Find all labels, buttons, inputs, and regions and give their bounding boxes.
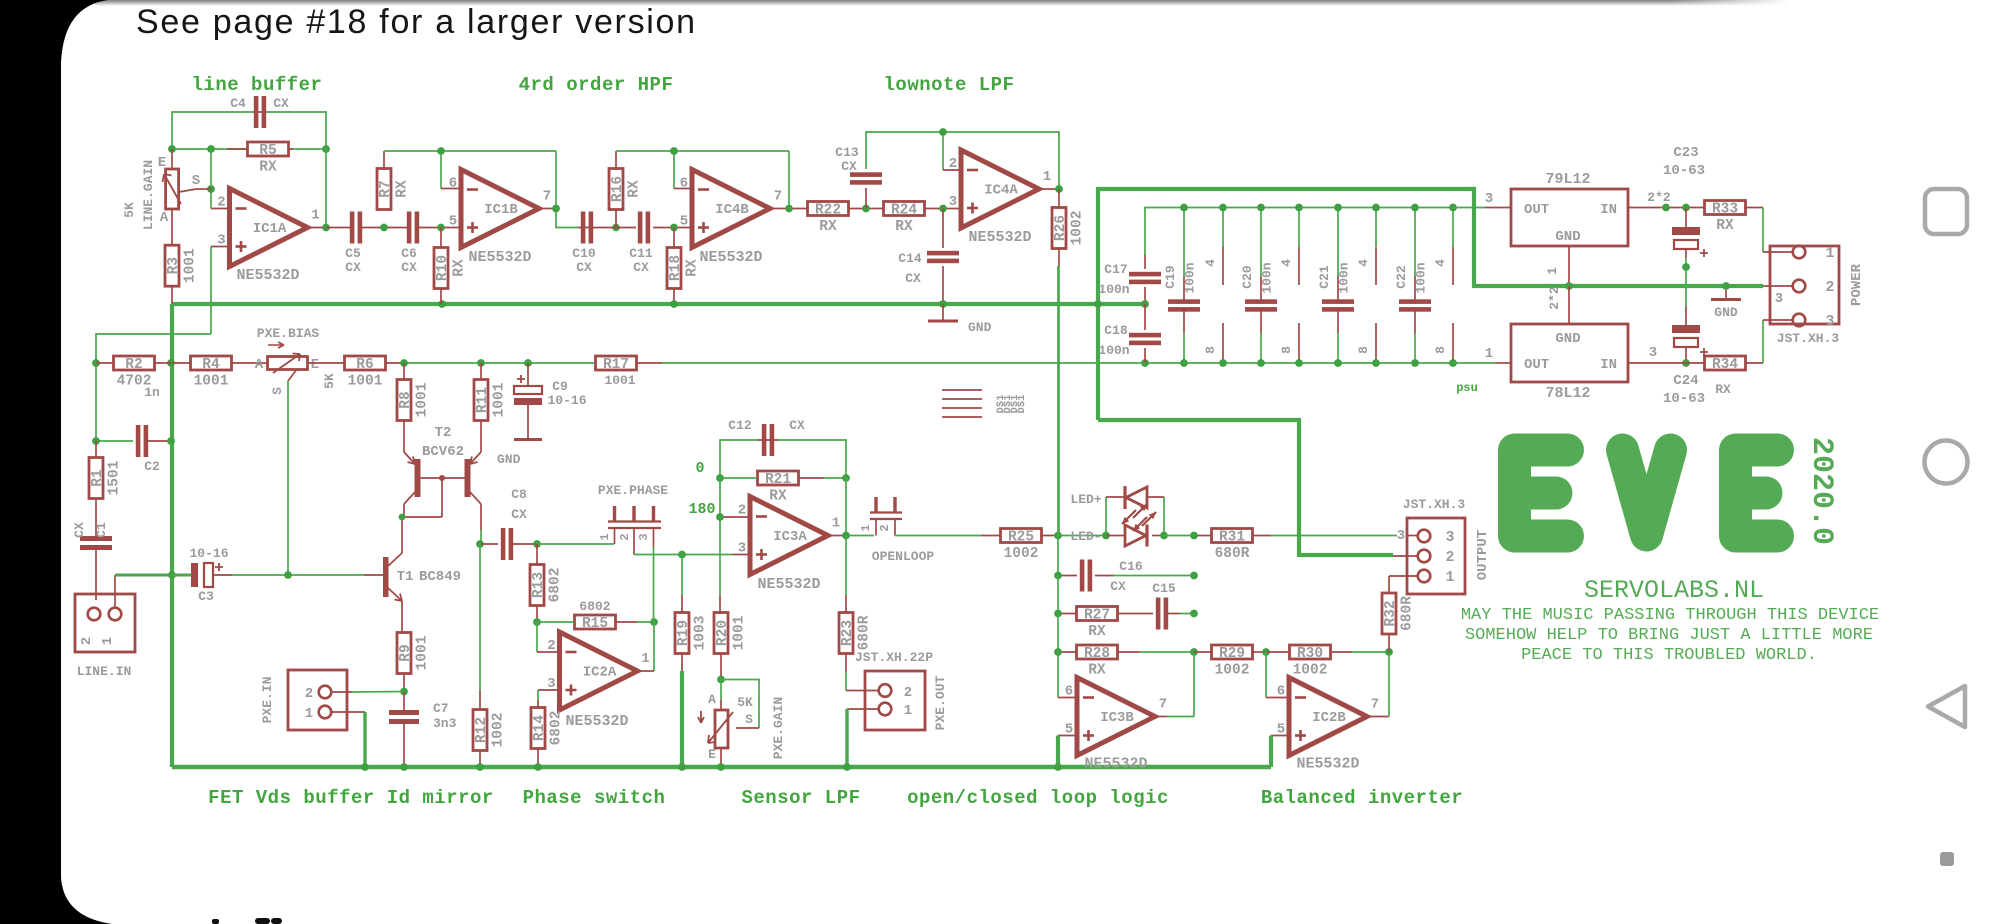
svg-text:5K: 5K bbox=[122, 202, 137, 218]
svg-text:R22: R22 bbox=[815, 203, 841, 219]
svg-text:RX: RX bbox=[1088, 663, 1106, 679]
svg-text:Balanced inverter: Balanced inverter bbox=[1261, 787, 1463, 809]
svg-text:1: 1 bbox=[598, 533, 612, 540]
svg-text:POWER: POWER bbox=[1849, 263, 1865, 306]
wire R20 riser bbox=[719, 517, 721, 595]
potentiometer LINE.GAIN 5K bbox=[122, 149, 211, 246]
svg-text:C7: C7 bbox=[433, 701, 449, 716]
connector OUTPUT JST.XH.3 bbox=[1403, 497, 1491, 594]
wire T2 right collector to C8 bbox=[480, 530, 482, 544]
svg-text:R25: R25 bbox=[1008, 530, 1034, 546]
resistor R14 bbox=[531, 708, 565, 768]
svg-text:CX: CX bbox=[511, 507, 527, 522]
svg-text:2: 2 bbox=[1445, 549, 1454, 566]
svg-text:3: 3 bbox=[949, 194, 957, 210]
wire 79L12 gnd pin bbox=[1568, 246, 1570, 286]
wire C3 row bbox=[172, 574, 191, 577]
capacitor C20 bbox=[1240, 262, 1277, 311]
svg-text:10-16: 10-16 bbox=[189, 546, 228, 561]
junction C16 left bbox=[1054, 572, 1062, 580]
wire IC3A out bbox=[828, 535, 847, 537]
resistor R23 bbox=[839, 613, 873, 654]
svg-text:RX: RX bbox=[819, 219, 837, 235]
svg-text:1002: 1002 bbox=[1004, 546, 1039, 562]
junction C24 R34 bbox=[1682, 359, 1690, 367]
wire 79L12 in bbox=[1628, 207, 1705, 209]
svg-text:SOMEHOW HELP TO BRING JUST A L: SOMEHOW HELP TO BRING JUST A LITTLE MORE bbox=[1465, 626, 1873, 645]
junction IC4A pin2 riser bbox=[939, 128, 947, 136]
svg-text:100n: 100n bbox=[1337, 262, 1352, 293]
svg-text:6: 6 bbox=[449, 176, 457, 192]
svg-text:BCV62: BCV62 bbox=[422, 444, 464, 460]
regulator U2 78L12 bbox=[1511, 324, 1628, 402]
wire 78L12 out pin1 bbox=[1453, 362, 1495, 364]
svg-text:CX: CX bbox=[1110, 579, 1126, 594]
junction regulators gnd bbox=[1565, 282, 1573, 290]
capacitor C19 bbox=[1163, 262, 1200, 311]
svg-text:10-63: 10-63 bbox=[1663, 163, 1705, 179]
ground symbol bbox=[928, 304, 992, 335]
junction R14 gnd bbox=[534, 763, 542, 771]
wire C10-C11 bbox=[607, 227, 636, 229]
junction C8 right R13 bbox=[533, 540, 541, 548]
svg-text:JST.XH.22P: JST.XH.22P bbox=[855, 650, 933, 665]
wire bottom GND bus bbox=[172, 765, 1271, 770]
svg-text:680R: 680R bbox=[1215, 546, 1250, 562]
junction R5-S node bbox=[207, 145, 215, 153]
svg-text:R19: R19 bbox=[676, 620, 692, 646]
svg-text:RX: RX bbox=[259, 160, 277, 176]
wire IC1B feedback bbox=[384, 150, 556, 152]
wire IC4B feedback bbox=[616, 150, 789, 152]
svg-text:IC2A: IC2A bbox=[583, 665, 617, 681]
junction C2 right gnd bbox=[167, 437, 175, 445]
svg-text:PXE.IN: PXE.IN bbox=[260, 677, 275, 724]
wire 78L12 in R34 bbox=[1628, 362, 1705, 364]
svg-text:OUT: OUT bbox=[1524, 357, 1549, 373]
capacitor C10 bbox=[572, 212, 596, 276]
svg-text:IN: IN bbox=[1600, 202, 1617, 218]
regulator U1 79L12 bbox=[1511, 171, 1628, 246]
resistor R20 bbox=[714, 613, 748, 679]
svg-text:8: 8 bbox=[1279, 346, 1294, 354]
junction R28 right bbox=[1190, 648, 1198, 656]
svg-text:1: 1 bbox=[1825, 245, 1834, 262]
wire line.in pin1 gnd bbox=[114, 575, 116, 607]
resistor R29 bbox=[1194, 645, 1266, 679]
svg-text:1: 1 bbox=[641, 651, 649, 667]
svg-text:C2: C2 bbox=[144, 459, 160, 474]
svg-text:A: A bbox=[255, 357, 264, 373]
svg-text:1003: 1003 bbox=[693, 616, 709, 651]
svg-text:C21: C21 bbox=[1317, 265, 1332, 289]
svg-text:RX: RX bbox=[1715, 382, 1731, 397]
capacitor C4 bbox=[230, 96, 289, 128]
wire output pin2 stub bbox=[1393, 555, 1418, 557]
svg-text:1: 1 bbox=[1485, 346, 1493, 362]
junction C2 left bbox=[92, 437, 100, 445]
svg-text:S: S bbox=[745, 712, 753, 727]
resistor R7 bbox=[377, 151, 411, 210]
svg-text:RX: RX bbox=[627, 180, 643, 198]
junction T1 collector bbox=[399, 514, 406, 521]
svg-text:1: 1 bbox=[1545, 267, 1560, 275]
svg-text:PXE.GAIN: PXE.GAIN bbox=[771, 697, 786, 759]
svg-text:10-63: 10-63 bbox=[1663, 391, 1705, 407]
svg-text:2: 2 bbox=[305, 686, 313, 702]
svg-text:A: A bbox=[708, 692, 716, 707]
connector LINE.IN bbox=[75, 594, 135, 679]
resistor R16 bbox=[609, 151, 643, 228]
junction C9 node bbox=[524, 359, 532, 367]
resistor R24 bbox=[884, 202, 925, 236]
svg-text:C14: C14 bbox=[898, 251, 922, 266]
op-amp IC4A NE5532D bbox=[949, 150, 1051, 246]
svg-text:3: 3 bbox=[637, 533, 651, 540]
svg-text:C24: C24 bbox=[1673, 373, 1698, 389]
capacitor C24 bbox=[1663, 306, 1708, 407]
resistor R12 bbox=[473, 710, 507, 751]
svg-text:IC4B: IC4B bbox=[715, 202, 749, 218]
junction R12 gnd bbox=[476, 763, 484, 771]
svg-text:1501: 1501 bbox=[107, 460, 123, 495]
svg-text:100n: 100n bbox=[1098, 343, 1129, 358]
capacitor C23 bbox=[1663, 145, 1708, 306]
resistor R21 bbox=[720, 471, 846, 505]
junction C17 C18 gnd bbox=[1141, 300, 1149, 308]
svg-text:E: E bbox=[708, 747, 716, 762]
svg-text:CX: CX bbox=[905, 271, 921, 286]
svg-text:1002: 1002 bbox=[1293, 663, 1328, 679]
svg-text:7: 7 bbox=[774, 189, 782, 205]
svg-text:C18: C18 bbox=[1104, 323, 1128, 338]
svg-text:100n: 100n bbox=[1098, 282, 1129, 297]
svg-text:R9: R9 bbox=[398, 644, 414, 661]
junction C13 node bbox=[862, 205, 870, 213]
svg-text:IC4A: IC4A bbox=[984, 183, 1018, 199]
resistor R13 bbox=[530, 544, 564, 622]
svg-text:6802: 6802 bbox=[548, 568, 564, 603]
junction R27 left bbox=[1054, 610, 1062, 618]
resistor R1 bbox=[89, 441, 123, 538]
svg-text:NE5532D: NE5532D bbox=[565, 713, 628, 730]
svg-text:1: 1 bbox=[1043, 169, 1051, 185]
capacitor C21 bbox=[1317, 262, 1354, 311]
svg-text:1002: 1002 bbox=[491, 713, 507, 748]
svg-text:GND: GND bbox=[1714, 305, 1738, 320]
svg-text:R10: R10 bbox=[435, 255, 451, 281]
svg-text:1001: 1001 bbox=[415, 635, 431, 670]
capacitor C8 bbox=[481, 487, 537, 560]
wire LED node left bbox=[1058, 535, 1106, 537]
svg-text:2020.0: 2020.0 bbox=[1804, 437, 1838, 545]
junction R19 node bbox=[678, 551, 686, 559]
svg-text:CX: CX bbox=[576, 260, 592, 275]
svg-text:GND: GND bbox=[497, 452, 521, 467]
junction IC4B feedback pin6 bbox=[670, 147, 678, 155]
wire IC2B pin5 gnd bbox=[1271, 735, 1289, 737]
svg-text:R2: R2 bbox=[125, 357, 142, 373]
svg-text:CX: CX bbox=[633, 260, 649, 275]
resistor R26 bbox=[1052, 189, 1086, 536]
svg-text:OPENLOOP: OPENLOOP bbox=[872, 549, 935, 564]
svg-text:E: E bbox=[311, 357, 319, 373]
svg-text:2: 2 bbox=[547, 638, 555, 654]
resistor R31 bbox=[1212, 529, 1253, 563]
svg-text:S: S bbox=[192, 173, 200, 189]
wire IC3A pin2 bbox=[719, 478, 721, 517]
svg-text:RX: RX bbox=[452, 259, 468, 277]
svg-text:R12: R12 bbox=[474, 717, 490, 743]
junction C23 in a bbox=[1662, 204, 1670, 212]
wire R22-R24 bbox=[848, 208, 884, 210]
resistor R18 bbox=[667, 228, 701, 305]
capacitor C22 bbox=[1394, 262, 1431, 311]
wire loop rail to IC3B pin6 bbox=[1057, 652, 1059, 698]
junction C5-C6 R7 bbox=[380, 224, 388, 232]
junction R21 right bbox=[842, 474, 850, 482]
svg-text:LINE.GAIN: LINE.GAIN bbox=[141, 160, 156, 230]
svg-text:3n3: 3n3 bbox=[433, 716, 457, 731]
svg-text:R18: R18 bbox=[668, 255, 684, 281]
junction feedback pin6 bbox=[437, 147, 445, 155]
junction R25 right bbox=[1054, 532, 1062, 540]
junction LED right bbox=[1160, 532, 1168, 540]
junction C4-R5 right node bbox=[322, 145, 330, 153]
svg-text:GND: GND bbox=[968, 320, 992, 335]
capacitor C11 bbox=[629, 212, 653, 276]
svg-text:OUTPUT: OUTPUT bbox=[1475, 530, 1491, 580]
wire C3 to T1 base bbox=[213, 574, 232, 576]
junction T2 diode node bbox=[439, 475, 445, 481]
svg-text:4rd order HPF: 4rd order HPF bbox=[519, 74, 674, 96]
svg-text:79L12: 79L12 bbox=[1545, 171, 1590, 188]
svg-text:1001: 1001 bbox=[183, 248, 199, 283]
svg-text:C17: C17 bbox=[1104, 262, 1127, 277]
wire R23 to pxe.out pin2 bbox=[845, 654, 847, 673]
svg-text:2*2: 2*2 bbox=[1547, 286, 1562, 310]
svg-text:C5: C5 bbox=[345, 246, 361, 261]
svg-text:6: 6 bbox=[1277, 684, 1285, 700]
wire input node vertical bbox=[95, 363, 97, 441]
wire 78L12 gnd pin bbox=[1568, 286, 1570, 324]
wire IC3B pin5 gnd bbox=[1058, 735, 1077, 737]
wire IC2B pin6 bbox=[1265, 652, 1267, 698]
svg-text:6802: 6802 bbox=[549, 711, 565, 746]
svg-text:2: 2 bbox=[217, 195, 225, 211]
wire R19 gnd thick bbox=[680, 671, 684, 767]
junction IC1B out bbox=[552, 205, 560, 213]
junction R10 node bbox=[438, 300, 446, 308]
capacitor C15 bbox=[1156, 598, 1194, 630]
wire C8 to PXE.PHASE pin1 bbox=[537, 543, 614, 545]
svg-text:IC1A: IC1A bbox=[253, 221, 287, 237]
junction LED left bbox=[1102, 532, 1110, 540]
svg-text:7: 7 bbox=[1371, 697, 1379, 713]
resistor R8 bbox=[397, 363, 431, 421]
resistor R22 bbox=[808, 202, 849, 236]
svg-text:1001: 1001 bbox=[415, 382, 431, 417]
svg-text:IC3A: IC3A bbox=[773, 529, 807, 545]
svg-text:Phase switch: Phase switch bbox=[523, 787, 666, 809]
resistor R27 bbox=[1058, 576, 1153, 641]
svg-text:R23: R23 bbox=[840, 620, 856, 646]
junction top rail dots bbox=[1180, 204, 1188, 212]
connector OPENLOOP bbox=[859, 497, 934, 564]
svg-text:R6: R6 bbox=[356, 357, 373, 373]
junction R11 node bbox=[477, 359, 485, 367]
svg-text:2*2: 2*2 bbox=[1647, 190, 1671, 205]
wire phase pin3 bbox=[653, 528, 655, 547]
svg-text:R8: R8 bbox=[398, 391, 414, 408]
svg-text:Sensor LPF: Sensor LPF bbox=[741, 787, 860, 809]
svg-text:0: 0 bbox=[695, 460, 704, 477]
junction R18 gnd bbox=[670, 300, 678, 308]
op-amp IC1B NE5532D bbox=[449, 170, 551, 267]
LED pair bbox=[1106, 486, 1164, 547]
svg-text:R20: R20 bbox=[715, 620, 731, 646]
svg-text:3: 3 bbox=[1445, 529, 1454, 546]
transistor pair T2 BCV62 bbox=[404, 419, 481, 530]
svg-text:IC2B: IC2B bbox=[1312, 710, 1346, 726]
capacitor C2 bbox=[96, 425, 171, 474]
junction pot gnd bbox=[717, 763, 725, 771]
resistor R30 bbox=[1266, 645, 1389, 679]
svg-text:2: 2 bbox=[79, 637, 95, 645]
svg-text:1002: 1002 bbox=[1215, 663, 1250, 679]
wire IC3B out bbox=[1155, 716, 1167, 718]
junction C15 right bbox=[1190, 610, 1198, 618]
svg-text:C15: C15 bbox=[1152, 581, 1176, 596]
logo EVE bbox=[1515, 450, 1778, 536]
svg-text:NE5532D: NE5532D bbox=[968, 229, 1031, 246]
wire to C10 bbox=[578, 227, 607, 229]
android nav back triangle button bbox=[1928, 686, 1965, 727]
junction bias wiper node bbox=[284, 571, 292, 579]
svg-text:CX: CX bbox=[841, 159, 857, 174]
svg-text:R11: R11 bbox=[475, 387, 491, 413]
junction R9 C7 pxe.in bbox=[400, 688, 408, 696]
svg-text:6: 6 bbox=[1065, 684, 1073, 700]
svg-text:180: 180 bbox=[688, 501, 715, 518]
svg-text:1: 1 bbox=[904, 703, 912, 719]
svg-text:line buffer: line buffer bbox=[192, 74, 323, 96]
svg-text:4: 4 bbox=[1203, 259, 1218, 267]
svg-text:R16: R16 bbox=[610, 176, 626, 202]
junction E node bbox=[168, 145, 176, 153]
svg-text:1001: 1001 bbox=[194, 374, 229, 390]
capacitor C9 bbox=[514, 363, 587, 438]
resistor R9 bbox=[397, 631, 431, 692]
resistor R28 bbox=[1058, 614, 1194, 679]
svg-text:1001: 1001 bbox=[492, 382, 508, 417]
resistor R19 bbox=[675, 613, 709, 672]
svg-text:PXE.OUT: PXE.OUT bbox=[933, 675, 948, 730]
svg-text:MAY THE MUSIC PASSING THROUGH: MAY THE MUSIC PASSING THROUGH THIS DEVIC… bbox=[1461, 606, 1879, 625]
junction S wiper bbox=[207, 185, 215, 193]
svg-text:1001: 1001 bbox=[348, 374, 383, 390]
svg-text:1: 1 bbox=[311, 208, 319, 224]
svg-text:R29: R29 bbox=[1219, 646, 1245, 662]
wire R34 to power pin3 bbox=[1746, 362, 1764, 364]
junction IC3B gnd bbox=[1054, 763, 1062, 771]
wire IC1A output bbox=[308, 227, 327, 229]
capacitor C6 bbox=[401, 212, 419, 276]
resistor R17 bbox=[596, 356, 663, 388]
svg-text:R7: R7 bbox=[378, 180, 394, 197]
svg-text:C1: C1 bbox=[94, 522, 109, 538]
svg-text:5: 5 bbox=[449, 214, 457, 230]
wire psu top rail bbox=[1145, 208, 1453, 256]
junction pin2 node bbox=[716, 513, 724, 521]
junction R8 node bbox=[400, 359, 408, 367]
junction R21 left bbox=[716, 474, 724, 482]
wire IC2A pin3 bbox=[538, 689, 560, 691]
wire C6 to IC1B pin5 bbox=[418, 227, 461, 229]
junction IC1A out bbox=[322, 224, 330, 232]
wire R5 row bbox=[172, 148, 326, 150]
svg-text:1001: 1001 bbox=[604, 373, 635, 388]
junction R20 pot bbox=[717, 676, 725, 684]
svg-text:1001: 1001 bbox=[732, 615, 748, 650]
svg-text:A: A bbox=[160, 210, 169, 226]
svg-text:T1: T1 bbox=[397, 569, 414, 585]
junction input node bbox=[92, 359, 100, 367]
svg-text:100n: 100n bbox=[1414, 262, 1429, 293]
svg-text:R15: R15 bbox=[582, 616, 608, 632]
svg-text:100n: 100n bbox=[1260, 262, 1275, 293]
svg-text:R30: R30 bbox=[1297, 646, 1323, 662]
junction R31 left bbox=[1190, 532, 1198, 540]
transistor T1 BC849 bbox=[383, 517, 461, 631]
svg-text:8: 8 bbox=[1356, 346, 1371, 354]
wire IC2B out bbox=[1367, 716, 1389, 718]
svg-text:PXE.PHASE: PXE.PHASE bbox=[598, 483, 668, 498]
svg-text:1: 1 bbox=[305, 706, 313, 722]
svg-text:R21: R21 bbox=[765, 472, 791, 488]
svg-text:3: 3 bbox=[1485, 191, 1493, 207]
wire loop rail left bbox=[1057, 266, 1059, 536]
svg-text:C8: C8 bbox=[511, 487, 527, 502]
connector POWER JST.XH.3 bbox=[1770, 245, 1865, 346]
svg-text:2: 2 bbox=[878, 524, 892, 531]
svg-text:LINE.IN: LINE.IN bbox=[77, 664, 132, 679]
svg-text:7: 7 bbox=[543, 189, 551, 205]
wire LED to R31 bbox=[1164, 535, 1194, 537]
svg-text:NE5532D: NE5532D bbox=[757, 576, 820, 593]
svg-text:C4: C4 bbox=[230, 96, 246, 111]
svg-text:1: 1 bbox=[832, 516, 840, 532]
capacitor C5 bbox=[345, 212, 362, 276]
svg-text:4: 4 bbox=[1356, 259, 1371, 267]
capacitor C13 bbox=[835, 132, 943, 209]
svg-text:6802: 6802 bbox=[579, 599, 610, 614]
svg-text:SERVOLABS.NL: SERVOLABS.NL bbox=[1584, 576, 1764, 605]
wire 79L12 out pin3 bbox=[1453, 207, 1485, 209]
svg-text:GND: GND bbox=[1555, 331, 1580, 347]
potentiometer PXE.BIAS bbox=[255, 326, 320, 575]
resistor R32 bbox=[1382, 576, 1416, 652]
svg-text:78L12: 78L12 bbox=[1545, 385, 1590, 402]
svg-text:C23: C23 bbox=[1673, 145, 1698, 161]
svg-text:1n: 1n bbox=[144, 385, 160, 400]
wire R17 to psu rail bbox=[662, 362, 1145, 364]
svg-text:C11: C11 bbox=[629, 246, 653, 261]
svg-text:D$1: D$1 bbox=[1016, 395, 1028, 414]
junction IC4B pin5 bbox=[670, 224, 678, 232]
wire R32 to output pin1 bbox=[1389, 575, 1418, 577]
svg-text:1: 1 bbox=[1445, 569, 1454, 586]
